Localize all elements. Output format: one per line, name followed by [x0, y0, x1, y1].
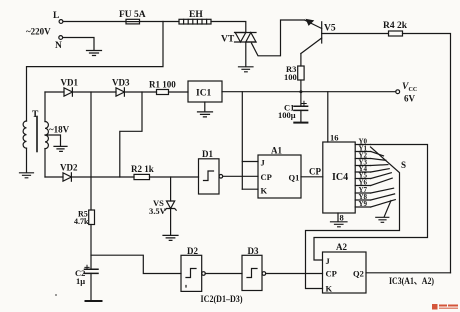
wire D3 to A2 CP [266, 273, 323, 275]
wire R1 to IC1 [169, 91, 189, 93]
svg-text:3.5V: 3.5V [149, 206, 167, 216]
wire secondary centre tap to ground [45, 135, 61, 146]
wire fuse to EH [140, 21, 180, 23]
svg-text:16: 16 [330, 133, 339, 143]
svg-text:1μ: 1μ [76, 276, 85, 286]
svg-text:CC: CC [409, 87, 418, 93]
wire VD1 to VD3 [72, 91, 116, 93]
svg-text:CP: CP [326, 269, 337, 279]
switch S contact fan Y9 [371, 200, 396, 207]
ground (IC4 pin8) [331, 222, 348, 227]
transformer core [36, 117, 38, 152]
output Y5 [355, 178, 370, 180]
svg-text:IC4: IC4 [332, 172, 348, 183]
wire L to fuse [63, 21, 126, 23]
wire Q1 to IC4 CP [301, 176, 323, 178]
svg-text:L: L [53, 11, 59, 21]
wire D1 to A1 CP [223, 175, 258, 177]
svg-text:K: K [261, 186, 268, 196]
output Y8 [355, 199, 370, 201]
wire VD3 to R1 [124, 91, 156, 93]
ground (N) [87, 51, 102, 56]
svg-text:4.7k: 4.7k [74, 217, 89, 226]
svg-text:CP: CP [309, 167, 321, 177]
capacitor C2 1u [85, 269, 99, 273]
svg-text:EH: EH [189, 10, 203, 20]
transistor V5 [321, 22, 323, 43]
svg-text:VD3: VD3 [112, 78, 130, 88]
wire Q2 to right rail [366, 272, 451, 274]
svg-text:S: S [401, 160, 406, 170]
switch S contact fan Y7 [371, 188, 394, 193]
regulator IC1 [188, 81, 222, 102]
svg-text:A1: A1 [271, 146, 282, 156]
wire R3 to Vcc rail [300, 80, 302, 92]
wire VD3 output zigzag to R2 line [120, 92, 142, 177]
output Y7 [355, 192, 370, 194]
svg-text:T: T [32, 110, 39, 120]
ground contact of switch [384, 201, 391, 217]
switch S contact fan Y8 [371, 194, 395, 200]
output Y6 [355, 185, 370, 187]
node junction to transformer [27, 22, 164, 122]
svg-text:100μ: 100μ [278, 110, 296, 120]
output Y4 [355, 171, 370, 173]
wire base to R4 [322, 33, 389, 35]
wire N to ground [63, 38, 94, 51]
svg-text:J: J [326, 256, 331, 266]
svg-text:VD2: VD2 [60, 163, 78, 173]
output Y1 [355, 151, 370, 153]
svg-text:VD1: VD1 [61, 78, 79, 88]
wire Vcc to IC4 pin16 [327, 92, 329, 142]
pin 8 to ground [337, 213, 339, 222]
transformer secondary winding [45, 122, 48, 149]
capacitor C1 100u [300, 92, 302, 107]
svg-text:R4 2k: R4 2k [383, 21, 408, 31]
ground (IC1) [204, 102, 206, 112]
switch S contact fan Y1 [371, 152, 384, 156]
transformer primary winding [23, 121, 26, 148]
Vcc rail [222, 91, 396, 93]
switch S contact fan Y2 [371, 159, 386, 161]
svg-text:~18V: ~18V [49, 125, 70, 135]
speck [55, 294, 57, 296]
svg-text:8: 8 [340, 213, 344, 223]
watermark [432, 304, 458, 310]
wire rectifier node down [90, 92, 92, 210]
wire triac to ground [245, 42, 247, 67]
output Y3 [355, 165, 370, 167]
switch S contact fan Y5 [371, 173, 392, 179]
svg-text:D2: D2 [187, 246, 198, 256]
wire R4 to right rail [403, 34, 451, 273]
switch S contact fan Y4 [371, 169, 389, 172]
svg-text:D3: D3 [248, 246, 259, 256]
svg-text:IC3(A1、A2): IC3(A1、A2) [389, 276, 434, 286]
svg-text:V5: V5 [324, 24, 336, 34]
wire D2 to D3 [205, 273, 242, 275]
ground (VS) [163, 235, 178, 240]
svg-text:CP: CP [261, 172, 272, 182]
wire EH to triac [211, 22, 246, 33]
svg-text:VT: VT [221, 35, 235, 45]
output Y0 [355, 144, 370, 146]
svg-text:6V: 6V [404, 94, 416, 104]
svg-text:IC2(D1–D3): IC2(D1–D3) [201, 294, 243, 304]
counter IC4 [323, 142, 355, 213]
wire secondary top to VD1 line [44, 92, 46, 122]
wire VD1 line [45, 91, 64, 93]
terminal N [59, 36, 63, 40]
svg-text:D1: D1 [202, 149, 213, 159]
svg-text:~220V: ~220V [26, 27, 51, 37]
ground (centre tap) [54, 146, 67, 151]
svg-text:J: J [261, 158, 266, 168]
wire R2 to D1 [150, 176, 199, 178]
wire C2 node to D2 [91, 255, 181, 273]
ground (VT) [239, 67, 254, 72]
svg-text:R2 1k: R2 1k [131, 164, 154, 174]
wire Y0 to A2 J [314, 145, 428, 261]
output Y9 [355, 206, 370, 208]
svg-text:R1 100: R1 100 [149, 80, 176, 90]
output Y2 [355, 158, 370, 160]
switch S contact fan Y3 [371, 164, 388, 167]
svg-text:N: N [55, 41, 62, 51]
wire secondary bottom to VD2 [44, 149, 46, 178]
switch S contact fan Y6 [371, 178, 392, 185]
svg-text:FU 5A: FU 5A [119, 10, 146, 20]
ground (primary) [20, 173, 34, 178]
svg-text:Q1: Q1 [289, 173, 300, 183]
terminal L [59, 20, 63, 24]
wire Vcc to A1 J,K [241, 92, 243, 190]
svg-text:K: K [326, 284, 333, 294]
svg-text:100: 100 [284, 72, 297, 82]
svg-text:Y9: Y9 [359, 200, 368, 208]
svg-text:A2: A2 [336, 242, 347, 252]
terminal Vcc [396, 90, 400, 94]
wire gate of VT to V5 emitter [252, 20, 305, 56]
svg-text:Q2: Q2 [353, 269, 364, 279]
wire V5 collector to R3 [300, 54, 302, 67]
wire VD2 to R2 [71, 176, 134, 178]
svg-text:IC1: IC1 [196, 89, 212, 99]
node R3/C1 junction [299, 90, 302, 93]
